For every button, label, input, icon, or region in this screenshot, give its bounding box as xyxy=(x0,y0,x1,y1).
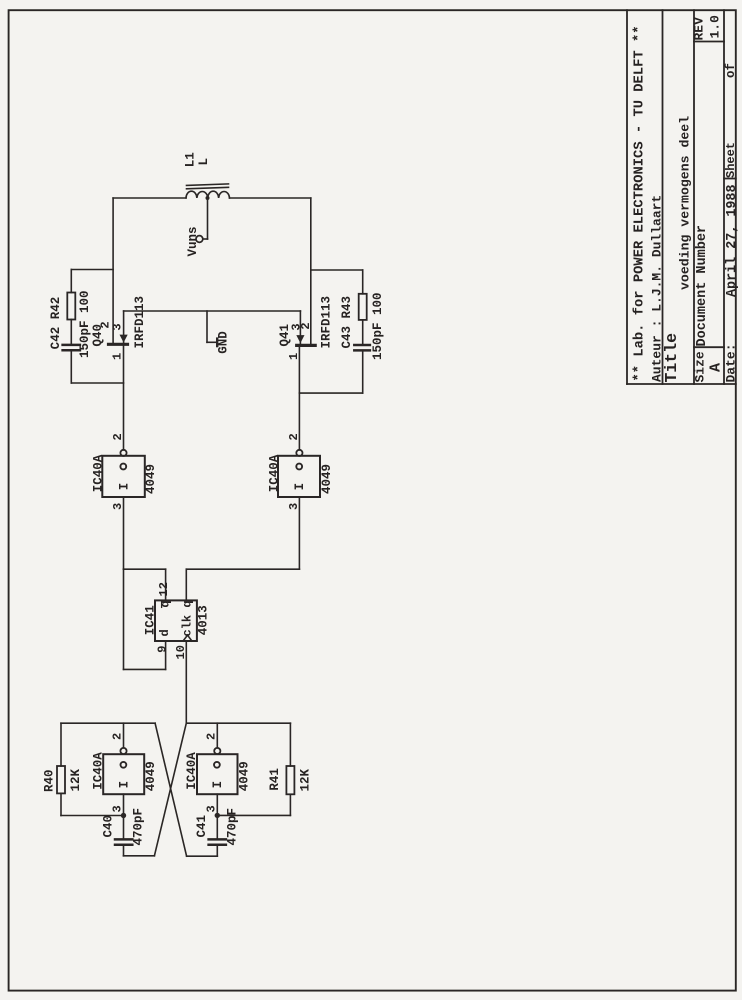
op-amp buffer IC40A lower-right box xyxy=(197,754,238,794)
wire buffer UL input xyxy=(123,497,125,569)
wire L1 bus left xyxy=(113,197,186,199)
svg-text:April 27, 1988: April 27, 1988 xyxy=(725,185,740,298)
wire R40 bottom lead xyxy=(60,793,62,815)
svg-text:4049: 4049 xyxy=(238,761,252,791)
svg-text:Vuns: Vuns xyxy=(186,226,200,256)
flip-flop clock wedge xyxy=(183,635,192,641)
svg-text:Date:: Date: xyxy=(724,343,739,382)
svg-text:IRFD113: IRFD113 xyxy=(319,296,333,349)
svg-text:Title: Title xyxy=(662,333,681,383)
svg-text:IC41: IC41 xyxy=(144,605,158,635)
svg-text:9: 9 xyxy=(155,646,169,653)
svg-text:12: 12 xyxy=(157,582,171,596)
svg-text:R40: R40 xyxy=(43,769,57,792)
svg-text:3: 3 xyxy=(110,323,124,330)
resistor R43 body xyxy=(359,294,367,320)
node junction dot right xyxy=(215,813,220,818)
op-amp buffer IC40A lower-left bubble xyxy=(120,748,126,754)
wire Q40 source to buffer xyxy=(123,344,125,450)
svg-text:150pF 100: 150pF 100 xyxy=(371,292,385,360)
svg-text:A: A xyxy=(708,363,725,372)
wire Q40 drain from L1 xyxy=(112,198,114,344)
svg-text:** Lab. for POWER ELECTRONICS: ** Lab. for POWER ELECTRONICS - TU DELFT… xyxy=(632,25,648,381)
wire oscillator left input rail xyxy=(61,815,124,817)
wire cross diagonal B xyxy=(154,723,186,856)
wire oscillator right rail xyxy=(186,722,290,724)
svg-text:q: q xyxy=(158,600,172,607)
svg-text:C41: C41 xyxy=(195,815,209,838)
wire snubber bottom right xyxy=(299,392,362,394)
transistor Q40 xyxy=(109,311,128,344)
op-amp buffer IC40A upper-right bubble xyxy=(296,450,302,456)
svg-text:C40: C40 xyxy=(102,815,116,838)
svg-text:I: I xyxy=(117,781,131,789)
ground GND symbol xyxy=(207,311,217,346)
svg-text:3: 3 xyxy=(111,503,125,510)
node L1 center tap junction xyxy=(206,196,210,200)
svg-text:4049: 4049 xyxy=(320,464,334,494)
op-amp buffer IC40A lower-left box xyxy=(103,754,144,794)
capacitor C40 plates xyxy=(115,838,132,841)
wire FF pin9 xyxy=(165,641,167,669)
op-amp buffer IC40A upper-right box xyxy=(278,456,320,497)
svg-text:3: 3 xyxy=(204,805,218,812)
wire FF pin12 xyxy=(165,569,167,600)
svg-text:2: 2 xyxy=(299,322,313,329)
wire buffer LR output xyxy=(216,723,218,748)
wire buffer LR input xyxy=(216,794,218,815)
resistor R41 body xyxy=(286,766,294,794)
wire R41 top lead xyxy=(289,723,291,766)
svg-text:Sheet: Sheet xyxy=(724,142,738,178)
op-amp buffer IC40A upper-left box xyxy=(102,456,145,497)
capacitor C42 plates xyxy=(63,344,80,347)
wire FF feedback loop xyxy=(123,569,125,669)
svg-text:4013: 4013 xyxy=(197,605,211,635)
svg-text:GND: GND xyxy=(217,331,231,354)
svg-text:IC40A: IC40A xyxy=(91,752,105,790)
node junction dot left xyxy=(121,813,126,818)
svg-text:C42 R42: C42 R42 xyxy=(49,297,63,350)
svg-text:I: I xyxy=(293,483,307,491)
wire C40 top lead xyxy=(123,816,125,839)
wire R40 top lead xyxy=(60,723,62,766)
inductor L1 core lines xyxy=(187,184,229,186)
svg-text:3: 3 xyxy=(111,805,125,812)
svg-text:q: q xyxy=(181,600,195,607)
capacitor C43 plates xyxy=(354,344,370,347)
wire C41 top lead xyxy=(216,815,218,838)
svg-text:2: 2 xyxy=(111,733,125,740)
wire C42 bottom lead xyxy=(70,352,72,384)
svg-text:4049: 4049 xyxy=(144,761,158,791)
wire buffer LL output xyxy=(123,723,125,748)
wire L1 bus right xyxy=(230,197,311,199)
flip-flop q-bar overline xyxy=(161,601,163,608)
svg-text:470pF: 470pF xyxy=(225,808,239,846)
svg-text:12K: 12K xyxy=(69,768,83,791)
svg-text:I: I xyxy=(117,483,131,491)
svg-text:REV: REV xyxy=(692,17,707,41)
svg-text:IRFD113: IRFD113 xyxy=(133,296,147,349)
wire R41 bottom lead xyxy=(289,794,291,815)
resistor R40 body xyxy=(57,766,65,793)
svg-text:Document Number: Document Number xyxy=(695,225,710,347)
wire snubber bottom left xyxy=(71,382,123,384)
svg-text:470pF: 470pF xyxy=(132,808,146,846)
op-amp buffer IC40A lower-right bubble xyxy=(214,748,220,754)
wire C43 bottom lead xyxy=(362,352,364,394)
svg-text:L: L xyxy=(197,158,211,166)
wire R43 top lead xyxy=(362,270,364,294)
svg-text:1: 1 xyxy=(111,353,125,360)
wire snubber top right xyxy=(311,269,363,271)
wire gate-source bus xyxy=(124,310,301,312)
svg-text:C43 R43: C43 R43 xyxy=(340,296,354,349)
svg-text:1.0: 1.0 xyxy=(708,15,723,39)
wire cross diagonal A xyxy=(155,723,187,856)
wire buffer LL input xyxy=(123,794,125,815)
svg-text:3: 3 xyxy=(287,503,301,510)
wire FF clk pin10 xyxy=(185,641,187,723)
flip-flop IC41 box xyxy=(155,600,197,641)
wire oscillator left rail xyxy=(61,722,155,724)
svg-text:2: 2 xyxy=(204,733,218,740)
svg-text:1: 1 xyxy=(287,353,301,360)
op-amp buffer IC40A upper-left bubble xyxy=(120,450,126,456)
wire C40 bottom lead xyxy=(123,846,125,856)
wire R43 to C43 xyxy=(362,320,364,344)
svg-text:voeding vermogens deel: voeding vermogens deel xyxy=(678,116,693,290)
svg-text:IC40A: IC40A xyxy=(185,752,199,790)
svg-text:IC40A: IC40A xyxy=(267,454,281,492)
terminal Vuns circle xyxy=(196,236,203,243)
svg-text:I: I xyxy=(211,781,225,789)
wire Vuns tap xyxy=(207,198,209,239)
svg-text:clk: clk xyxy=(180,615,194,637)
wire R42 to C42 xyxy=(70,320,72,344)
svg-text:10: 10 xyxy=(174,645,188,659)
svg-text:12K: 12K xyxy=(298,768,312,791)
wire R42 top lead xyxy=(70,270,72,293)
title block frame xyxy=(627,10,736,384)
resistor R42 body xyxy=(67,293,75,320)
inductor L1 coil xyxy=(186,191,230,198)
wire buffer UR input xyxy=(298,497,300,569)
capacitor C41 plates xyxy=(209,838,226,841)
wire oscillator right input rail xyxy=(217,814,290,816)
wire Q41 drain from L1 xyxy=(310,198,312,345)
svg-text:IC40A: IC40A xyxy=(92,454,106,492)
svg-text:Size: Size xyxy=(693,351,708,382)
svg-text:2: 2 xyxy=(111,433,125,440)
svg-text:4049: 4049 xyxy=(144,464,158,494)
svg-text:2: 2 xyxy=(287,433,301,440)
wire C40 cap rail xyxy=(124,855,155,857)
svg-text:R41: R41 xyxy=(268,768,282,791)
wire C41 cap rail xyxy=(187,855,218,857)
svg-text:of: of xyxy=(724,63,738,78)
wire Q41 source to buffer xyxy=(298,345,300,450)
wire snubber top left xyxy=(71,269,113,271)
svg-text:d: d xyxy=(158,629,172,636)
transistor Q41 xyxy=(296,311,315,345)
wire FF q output xyxy=(185,569,187,600)
svg-text:L1: L1 xyxy=(184,152,198,167)
wire C41 bottom lead xyxy=(216,846,218,856)
